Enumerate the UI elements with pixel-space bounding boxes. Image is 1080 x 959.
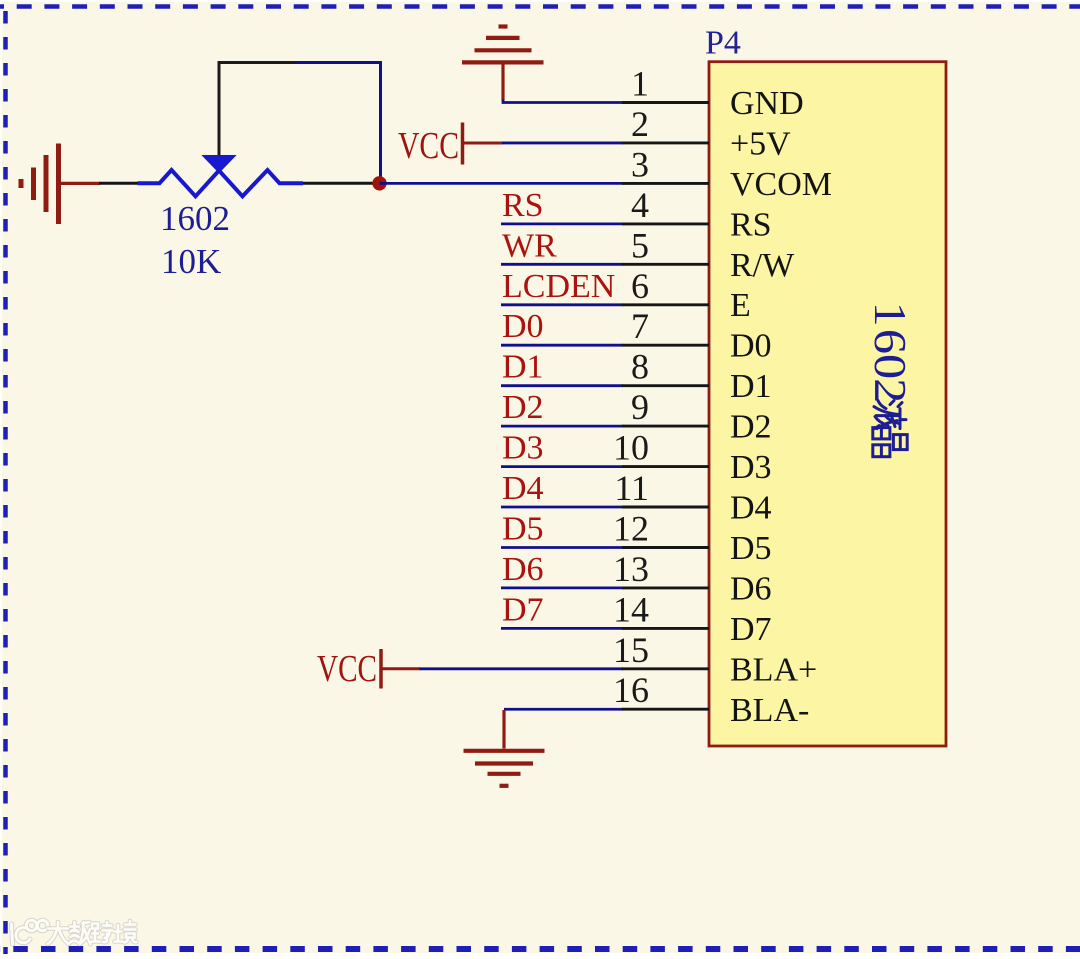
svg-text:RS: RS (502, 187, 544, 224)
svg-text:D2: D2 (730, 409, 772, 446)
pin 9 stub (622, 425, 709, 428)
wire net D6 (pin 13) (501, 587, 623, 590)
pin 16 stub (622, 708, 709, 711)
wire net D0 (pin 7) (501, 344, 623, 347)
wire ground to pin 1 (503, 100, 623, 103)
junction node dot (372, 176, 386, 190)
svg-text:D6: D6 (502, 551, 544, 588)
svg-text:D2: D2 (502, 389, 544, 426)
wire net D2 (pin 9) (501, 425, 623, 428)
svg-text:9: 9 (631, 387, 649, 427)
svg-text:8: 8 (631, 347, 649, 387)
svg-text:10: 10 (613, 428, 649, 468)
svg-text:BLA+: BLA+ (730, 651, 817, 688)
wire VCC to pin 15 (420, 667, 624, 670)
svg-text:5: 5 (631, 225, 649, 265)
svg-text:0: 0 (865, 354, 915, 379)
svg-text:D0: D0 (730, 328, 772, 365)
potentiometer RP 1602 10K (138, 170, 304, 196)
svg-text:GND: GND (730, 85, 804, 122)
wire net RS (pin 4) (501, 222, 623, 225)
pin 15 stub (622, 667, 709, 670)
svg-text:D3: D3 (730, 449, 772, 486)
pin 1 stub (622, 101, 709, 104)
svg-text:D1: D1 (502, 349, 544, 386)
svg-text:D1: D1 (730, 368, 772, 405)
pin 10 stub (622, 465, 709, 468)
wire net D7 (pin 14) (501, 627, 623, 630)
ground GND-bottom (pin 16) (464, 710, 545, 786)
wire net D3 (pin 10) (501, 465, 623, 468)
pin 3 stub (622, 182, 709, 185)
svg-text:+5V: +5V (730, 125, 791, 162)
wire net D1 (pin 8) (501, 384, 623, 387)
wire VCC to pin 2 (502, 142, 623, 145)
svg-text:D7: D7 (502, 591, 544, 628)
svg-text:D0: D0 (502, 308, 544, 345)
wire net WR (pin 5) (501, 263, 623, 266)
svg-text:2: 2 (631, 104, 649, 144)
svg-text:BLA-: BLA- (730, 692, 809, 729)
svg-text:7: 7 (631, 306, 649, 346)
ground GND-top (pin 1) (462, 27, 544, 101)
wire wiper loop (left/top, black part) (219, 63, 295, 156)
pin 4 stub (622, 222, 709, 225)
pin 12 stub (622, 546, 709, 549)
pin 2 stub (622, 141, 709, 144)
svg-text:14: 14 (613, 589, 649, 629)
wire wiper loop (top/right, blue part) (295, 63, 381, 184)
svg-text:11: 11 (614, 468, 649, 508)
svg-text:D5: D5 (730, 530, 772, 567)
svg-text:3: 3 (631, 144, 649, 184)
watermark logo 100 (12, 920, 48, 944)
part label 1602 LCD (vertical) (865, 302, 915, 457)
svg-text:1: 1 (865, 302, 915, 327)
pin 13 stub (622, 586, 709, 589)
svg-text:D6: D6 (730, 570, 772, 607)
svg-text:15: 15 (613, 630, 649, 670)
svg-text:LCDEN: LCDEN (502, 268, 615, 305)
pin 6 stub (622, 303, 709, 306)
svg-text:D3: D3 (502, 430, 544, 467)
svg-text:RS: RS (730, 206, 772, 243)
pin 11 stub (622, 506, 709, 509)
svg-text:D4: D4 (730, 490, 772, 527)
wire junction to pin 3 (380, 182, 624, 185)
potentiometer wiper arrow (203, 156, 236, 173)
svg-text:VCOM: VCOM (730, 166, 832, 203)
svg-text:1602: 1602 (160, 199, 230, 238)
svg-text:P4: P4 (705, 25, 741, 62)
svg-text:VCC: VCC (317, 648, 377, 690)
svg-text:13: 13 (613, 549, 649, 589)
wire net D4 (pin 11) (501, 506, 623, 509)
pin 14 stub (622, 627, 709, 630)
connector P4 body (709, 62, 946, 746)
svg-text:WR: WR (502, 227, 557, 264)
svg-text:16: 16 (613, 670, 649, 710)
wire resistor to junction (303, 182, 380, 185)
wire ground to resistor (99, 182, 138, 185)
pin 8 stub (622, 384, 709, 387)
svg-text:12: 12 (613, 509, 649, 549)
svg-text:D5: D5 (502, 511, 544, 548)
wire net D5 (pin 12) (501, 546, 623, 549)
svg-text:R/W: R/W (730, 247, 795, 284)
watermark text (48, 921, 137, 944)
wire pin 16 to ground (504, 708, 623, 711)
ground GND-left (potentiometer ground) (21, 144, 100, 225)
svg-text:6: 6 (631, 266, 649, 306)
svg-text:E: E (730, 287, 751, 324)
svg-text:1: 1 (631, 64, 649, 104)
svg-text:VCC: VCC (398, 125, 459, 167)
wire net LCDEN (pin 6) (501, 303, 623, 306)
pin 7 stub (622, 344, 709, 347)
svg-text:D7: D7 (730, 611, 772, 648)
svg-text:6: 6 (865, 329, 915, 354)
pin 5 stub (622, 263, 709, 266)
svg-text:2: 2 (865, 378, 915, 403)
svg-text:10K: 10K (161, 242, 221, 281)
svg-text:4: 4 (631, 185, 649, 225)
svg-text:D4: D4 (502, 470, 544, 507)
